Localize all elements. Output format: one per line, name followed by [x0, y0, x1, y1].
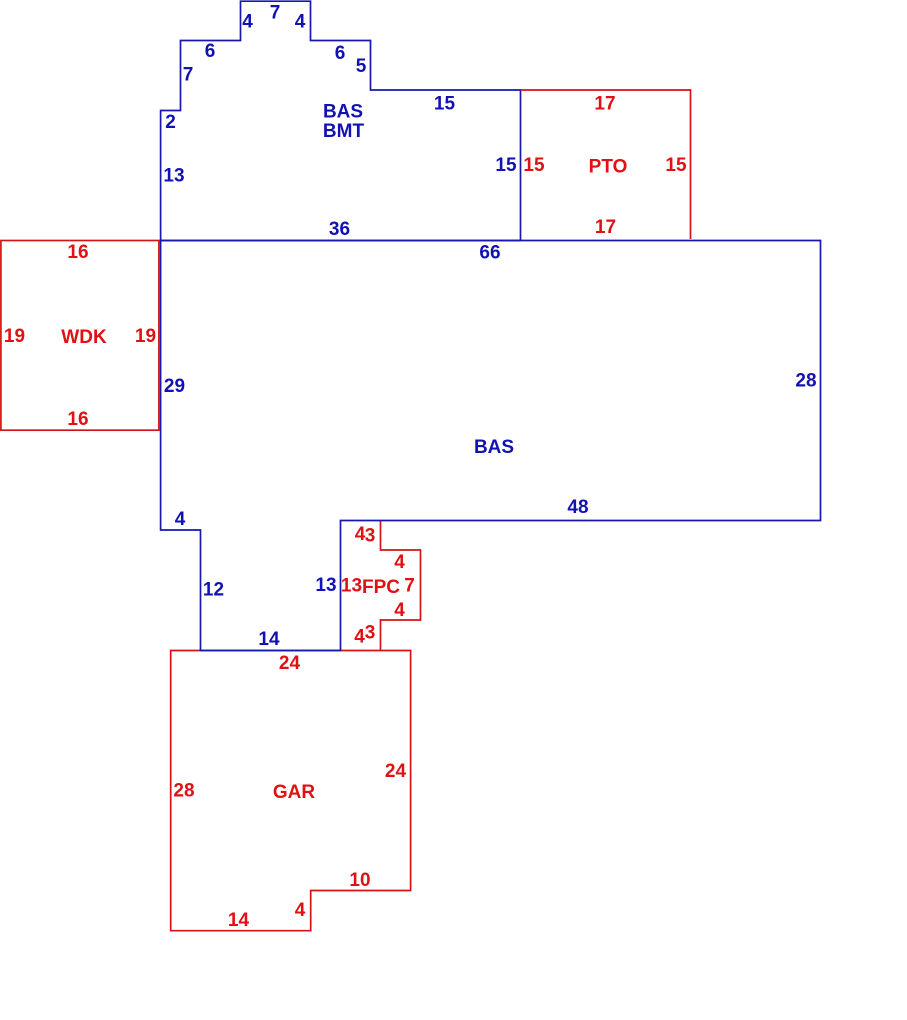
svg-text:17: 17: [594, 94, 615, 115]
svg-text:BMT: BMT: [323, 121, 365, 142]
svg-text:24: 24: [279, 653, 301, 674]
svg-text:GAR: GAR: [273, 782, 316, 803]
svg-text:2: 2: [165, 112, 176, 133]
svg-text:13: 13: [341, 576, 362, 597]
svg-text:4: 4: [295, 900, 306, 921]
svg-text:36: 36: [329, 219, 350, 240]
svg-text:4: 4: [394, 552, 405, 573]
svg-text:15: 15: [523, 155, 545, 176]
svg-text:12: 12: [203, 580, 224, 601]
svg-text:66: 66: [479, 243, 500, 264]
wall outline GAR (garage): [171, 651, 411, 931]
svg-text:16: 16: [67, 409, 88, 430]
svg-text:PTO: PTO: [589, 157, 628, 178]
svg-text:14: 14: [258, 629, 280, 650]
svg-text:6: 6: [335, 43, 346, 64]
svg-text:4: 4: [354, 627, 365, 648]
svg-text:7: 7: [270, 3, 281, 24]
svg-text:28: 28: [173, 781, 194, 802]
svg-text:15: 15: [495, 155, 517, 176]
svg-text:19: 19: [135, 326, 156, 347]
svg-text:3: 3: [365, 526, 376, 547]
svg-text:29: 29: [164, 376, 185, 397]
svg-text:BAS: BAS: [323, 102, 363, 123]
svg-text:24: 24: [385, 761, 407, 782]
wall outline PTO (patio): [522, 90, 691, 239]
svg-text:15: 15: [434, 94, 456, 115]
svg-text:FPC: FPC: [362, 577, 400, 598]
svg-text:4: 4: [394, 600, 405, 621]
svg-text:5: 5: [356, 56, 367, 77]
svg-text:19: 19: [4, 326, 25, 347]
wall outline BAS BMT (basement): [161, 1, 521, 240]
svg-text:48: 48: [567, 497, 588, 518]
svg-text:WDK: WDK: [61, 327, 107, 348]
svg-text:4: 4: [175, 509, 186, 530]
svg-text:28: 28: [795, 371, 816, 392]
svg-text:7: 7: [404, 576, 415, 597]
svg-text:13: 13: [315, 575, 336, 596]
wall outline FPC (porch): [381, 521, 421, 651]
svg-text:13: 13: [163, 166, 184, 187]
svg-text:10: 10: [349, 870, 370, 891]
wall outline BAS (first floor): [161, 241, 821, 651]
svg-text:14: 14: [228, 910, 250, 931]
svg-text:15: 15: [665, 155, 687, 176]
svg-text:16: 16: [67, 242, 88, 263]
svg-text:BAS: BAS: [474, 437, 514, 458]
svg-text:7: 7: [183, 65, 194, 86]
wall outline WDK (wood deck): [1, 241, 159, 431]
svg-text:3: 3: [365, 623, 376, 644]
svg-text:4: 4: [295, 12, 306, 33]
svg-text:4: 4: [242, 12, 253, 33]
svg-text:6: 6: [205, 41, 216, 62]
svg-text:17: 17: [595, 217, 616, 238]
